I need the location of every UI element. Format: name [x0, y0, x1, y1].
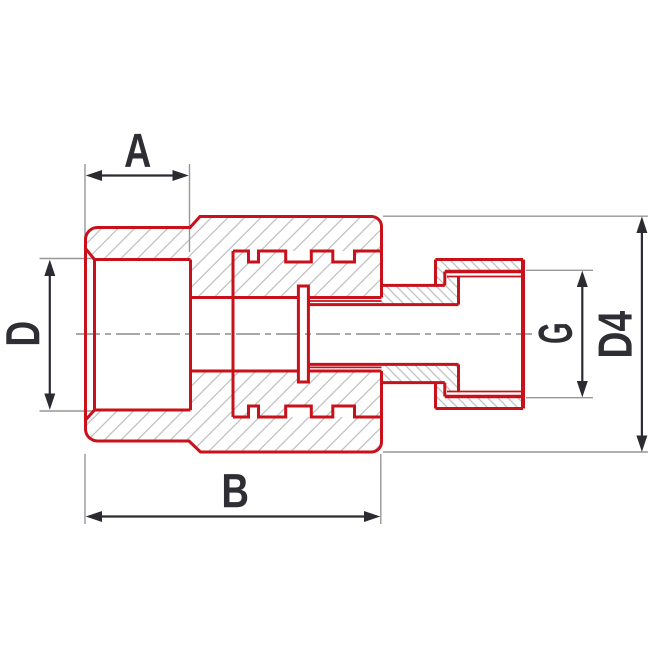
- extension line B left: [84, 454, 86, 524]
- pipe bottom line: [308, 363, 458, 366]
- thread relief step bottom: [457, 364, 460, 391]
- extension line G bottom: [526, 397, 593, 399]
- body outline: [86, 217, 382, 453]
- thread step top: [443, 272, 446, 286]
- channel bottom line: [191, 370, 382, 373]
- thread major bottom: [445, 395, 523, 398]
- thread relief step top: [457, 277, 460, 305]
- thread notch whites bottom: [249, 406, 259, 417]
- extension line B right: [380, 454, 382, 524]
- socket mouth face: [93, 260, 96, 411]
- right part hatched fill bottom: [382, 364, 524, 408]
- dimension D line: [49, 270, 51, 400]
- extension line D4 bottom: [383, 451, 648, 453]
- flange slot white: [298, 286, 308, 382]
- bore shoulder: [189, 260, 192, 411]
- clearance line top: [308, 300, 381, 302]
- dimension A arrow right: [173, 170, 189, 181]
- flange: [298, 286, 308, 382]
- thread profile bottom: [233, 406, 382, 417]
- dimension D4 line: [641, 227, 643, 442]
- nut top edge: [436, 258, 524, 261]
- dimension G line: [581, 281, 583, 387]
- extension line D bottom: [40, 410, 96, 412]
- thread major top: [445, 270, 523, 273]
- hex step line bottom: [382, 381, 445, 384]
- dimension A arrow left: [86, 170, 102, 181]
- socket chamfer top: [86, 249, 95, 260]
- dimension B arrow right: [364, 511, 380, 522]
- insert tail face: [232, 251, 235, 417]
- thread step bottom: [443, 383, 446, 397]
- socket end-face strip white: [86, 249, 95, 421]
- dimension A line: [98, 174, 177, 176]
- thread profile top: [233, 251, 382, 262]
- dimension B line: [98, 515, 368, 517]
- dimension B arrow left: [86, 511, 102, 522]
- right part hatched fill top: [382, 260, 524, 305]
- socket bore bottom: [95, 409, 191, 412]
- nut left edge bottom: [434, 383, 437, 409]
- label D: [6, 322, 39, 344]
- nut bottom edge: [436, 407, 524, 410]
- channel top line: [191, 296, 382, 299]
- label A: [125, 134, 150, 167]
- nut right face: [521, 260, 525, 409]
- extension line D top: [40, 258, 96, 260]
- body hatched fill: [86, 217, 382, 453]
- label G: [538, 324, 572, 343]
- dimension D4 arrow up: [636, 216, 647, 233]
- extension line A right: [189, 164, 191, 252]
- socket bore top: [95, 258, 191, 261]
- dimension G arrow down: [577, 381, 588, 397]
- label B: [224, 474, 247, 507]
- dimension D arrow up: [44, 260, 55, 276]
- dimension D arrow down: [44, 394, 55, 410]
- socket chamfer bottom: [86, 410, 95, 420]
- thread minor bottom: [447, 391, 521, 393]
- center line: [76, 333, 532, 335]
- hex step line top: [382, 284, 445, 287]
- thread minor top: [447, 276, 521, 278]
- socket bore white: [95, 260, 191, 411]
- clearance line bottom: [308, 366, 381, 368]
- dimension D4 arrow down: [636, 436, 647, 452]
- thread notch whites top: [249, 251, 259, 262]
- label D4: [599, 311, 632, 356]
- dimension G arrow up: [577, 271, 588, 287]
- extension line D4 top: [383, 215, 648, 217]
- pipe top line: [308, 303, 458, 306]
- extension line A left: [84, 164, 86, 252]
- extension line G top: [526, 269, 593, 271]
- channel bore white: [191, 298, 382, 372]
- nut left edge top: [434, 260, 437, 286]
